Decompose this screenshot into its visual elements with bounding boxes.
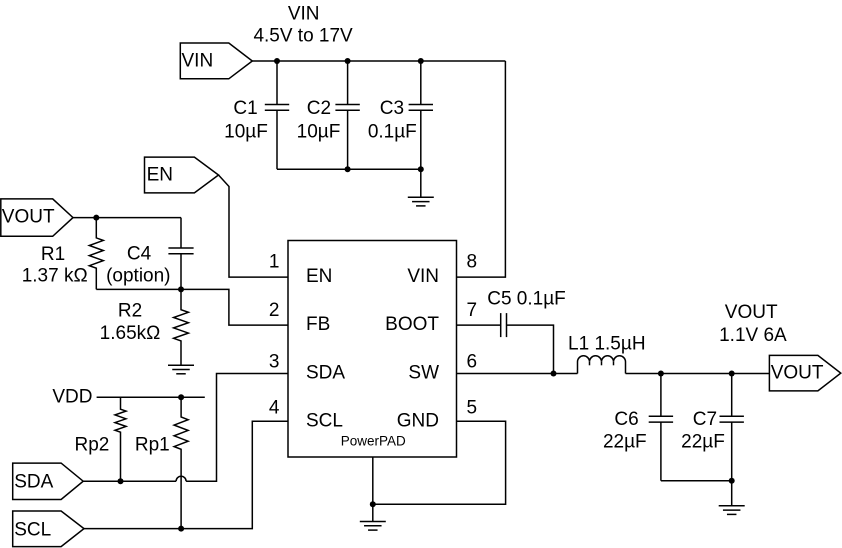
svg-text:3: 3 bbox=[269, 351, 280, 372]
junction VDD/Rp1 bbox=[178, 394, 184, 400]
junction C7 bottom bbox=[729, 478, 735, 484]
svg-text:Rp1: Rp1 bbox=[135, 434, 170, 455]
svg-text:4: 4 bbox=[269, 397, 280, 418]
svg-text:22µF: 22µF bbox=[681, 432, 725, 453]
wire SCL to pin 4 bbox=[84, 421, 288, 528]
junction SCL/Rp1 bbox=[178, 526, 184, 532]
svg-text:6: 6 bbox=[467, 351, 478, 372]
svg-text:EN: EN bbox=[147, 165, 173, 186]
svg-text:C2: C2 bbox=[307, 98, 331, 119]
wire pin 5 GND routing bbox=[373, 421, 506, 504]
svg-text:SCL: SCL bbox=[306, 410, 343, 431]
junction C6 top bbox=[658, 371, 664, 377]
svg-text:R1: R1 bbox=[41, 244, 65, 265]
svg-text:VDD: VDD bbox=[52, 387, 92, 408]
svg-text:VIN: VIN bbox=[407, 266, 439, 287]
svg-text:SDA: SDA bbox=[306, 363, 345, 384]
svg-text:SCL: SCL bbox=[14, 520, 51, 541]
wire pin 7 BOOT stub bbox=[457, 324, 501, 326]
wire PowerPAD ground stem bbox=[372, 457, 374, 522]
svg-text:VOUT: VOUT bbox=[771, 363, 824, 384]
wire VIN rail top bbox=[252, 60, 505, 62]
resistor Rp2 bbox=[115, 397, 126, 481]
SDA input flag bbox=[13, 463, 84, 499]
ground output caps bbox=[719, 506, 745, 515]
wire SDA net bbox=[83, 480, 176, 482]
svg-text:1: 1 bbox=[269, 251, 280, 272]
svg-text:VIN: VIN bbox=[182, 51, 214, 72]
svg-text:7: 7 bbox=[467, 300, 478, 321]
svg-text:10µF: 10µF bbox=[224, 121, 268, 142]
wire FB node to pin 2 bbox=[96, 289, 288, 325]
svg-text:SDA: SDA bbox=[14, 471, 53, 492]
svg-text:SW: SW bbox=[408, 363, 439, 384]
svg-text:C1: C1 bbox=[233, 98, 257, 119]
svg-text:4.5V to 17V: 4.5V to 17V bbox=[253, 25, 353, 46]
svg-text:1.37 kΩ: 1.37 kΩ bbox=[22, 266, 88, 287]
junction C2 bottom bbox=[345, 166, 351, 172]
resistor R2 bbox=[174, 289, 189, 365]
svg-text:10µF: 10µF bbox=[297, 121, 341, 142]
capacitor C7 bbox=[720, 374, 744, 481]
capacitor C1 bbox=[265, 61, 289, 169]
inductor L1 bbox=[578, 356, 626, 374]
capacitor C5 bbox=[501, 313, 507, 337]
capacitor C2 bbox=[335, 61, 359, 169]
svg-text:VOUT: VOUT bbox=[2, 207, 55, 228]
svg-text:L1 1.5µH: L1 1.5µH bbox=[568, 334, 646, 355]
junction SW/BOOT bbox=[551, 371, 557, 377]
VIN input flag bbox=[180, 43, 252, 79]
svg-text:PowerPAD: PowerPAD bbox=[341, 434, 406, 449]
svg-text:GND: GND bbox=[397, 410, 439, 431]
wire VDD rail bbox=[97, 396, 205, 398]
svg-text:5: 5 bbox=[467, 397, 478, 418]
svg-text:VIN: VIN bbox=[288, 4, 320, 25]
capacitor C3 bbox=[409, 61, 433, 169]
svg-text:1.1V 6A: 1.1V 6A bbox=[719, 325, 787, 346]
wire SDA to pin 3 bbox=[186, 374, 288, 482]
svg-text:C5 0.1µF: C5 0.1µF bbox=[487, 288, 566, 309]
VOUT input flag bbox=[1, 199, 73, 236]
junction C3 bottom bbox=[418, 166, 424, 172]
svg-text:1.65kΩ: 1.65kΩ bbox=[100, 323, 161, 344]
wire output caps bottom rail bbox=[661, 480, 732, 482]
junction VIN/C3 bbox=[418, 58, 424, 64]
capacitor C6 bbox=[649, 374, 673, 481]
wire C7 ground stem bbox=[731, 481, 733, 506]
VOUT output flag bbox=[769, 355, 840, 391]
resistor Rp1 bbox=[174, 397, 188, 528]
svg-text:Rp2: Rp2 bbox=[74, 434, 109, 455]
svg-text:BOOT: BOOT bbox=[385, 314, 439, 335]
wire L1 to VOUT flag bbox=[626, 373, 770, 375]
ground IC bbox=[360, 522, 386, 531]
junction C7 top bbox=[729, 371, 735, 377]
ground R2 bbox=[168, 365, 194, 374]
svg-text:8: 8 bbox=[467, 251, 478, 272]
SCL input flag bbox=[13, 511, 84, 547]
wire EN to pin 1 bbox=[219, 175, 289, 277]
svg-text:C3: C3 bbox=[380, 98, 404, 119]
resistor R1 bbox=[89, 218, 103, 290]
svg-text:2: 2 bbox=[269, 300, 280, 321]
svg-text:0.1µF: 0.1µF bbox=[368, 121, 417, 142]
wire VIN rail to pin 8 bbox=[457, 61, 506, 277]
svg-text:EN: EN bbox=[306, 266, 332, 287]
svg-text:C6: C6 bbox=[614, 409, 638, 430]
svg-text:FB: FB bbox=[306, 314, 330, 335]
svg-text:VOUT: VOUT bbox=[725, 302, 778, 323]
junction GND node bbox=[370, 501, 376, 507]
EN input flag bbox=[145, 157, 219, 193]
svg-text:C7: C7 bbox=[693, 409, 717, 430]
wire SW pin 6 bbox=[457, 373, 578, 375]
junction SDA/Rp2 bbox=[118, 478, 124, 484]
junction VIN/C1 bbox=[274, 58, 280, 64]
svg-text:22µF: 22µF bbox=[603, 432, 647, 453]
svg-text:R2: R2 bbox=[118, 301, 142, 322]
junction R1 top bbox=[93, 215, 99, 221]
wire VOUT to C4 bbox=[73, 217, 181, 219]
junction FB node bbox=[178, 286, 184, 292]
IC U1 body bbox=[288, 241, 457, 458]
wire SDA hop over Rp1 bbox=[176, 476, 186, 481]
svg-text:C4: C4 bbox=[127, 243, 152, 264]
capacitor C4 bbox=[168, 218, 193, 290]
wire C3 ground stem bbox=[420, 169, 422, 197]
svg-text:(option): (option) bbox=[106, 266, 170, 287]
junction VIN/C2 bbox=[345, 58, 351, 64]
wire BOOT to SW node bbox=[507, 325, 554, 373]
wire input caps bottom rail bbox=[277, 168, 421, 170]
ground input caps bbox=[408, 197, 434, 206]
